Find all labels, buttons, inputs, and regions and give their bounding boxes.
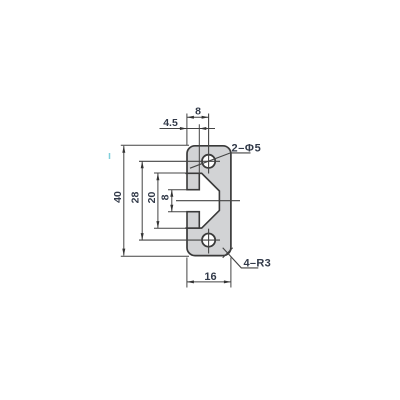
dim 8 top line (187, 116, 209, 118)
dim 4.5 arrow right (199, 127, 206, 130)
dim 16 arrow left (187, 280, 194, 283)
tab bottom (slot lip) (187, 212, 199, 228)
dim 40 extension bottom (121, 255, 189, 257)
dim 4.5 arrow left (180, 127, 187, 130)
leader 4-R3 (223, 248, 259, 268)
dim 20 arrow down (156, 221, 159, 228)
part body (16x40 rounded rect profile) (187, 146, 231, 256)
cavity (T-slot opening, white cut) (185, 173, 219, 228)
dim 40 extension top (121, 144, 189, 146)
stray cyan mark (109, 153, 111, 159)
dim 20 line (157, 173, 159, 228)
tab top (slot lip) (187, 173, 199, 189)
dim 20 extension bottom (154, 227, 187, 229)
svg-text:4–R3: 4–R3 (244, 257, 272, 269)
hole bottom (phi5) (202, 234, 215, 247)
svg-text:28: 28 (130, 192, 142, 204)
dim 8 left extension bottom (168, 211, 187, 213)
centerline top hole vertical (also ext for top 8) (208, 114, 210, 174)
dim 4.5 line (160, 128, 216, 130)
dim 16 extension right (230, 258, 232, 288)
dim 40 line (123, 146, 125, 256)
centerline horizontal (176, 200, 240, 202)
svg-text:40: 40 (112, 191, 124, 203)
svg-text:8: 8 (195, 105, 201, 117)
dim 20 arrow up (156, 173, 159, 180)
leader 4-R3 cross tick (223, 248, 233, 258)
dim 28 arrow down (141, 233, 144, 240)
dim 8 left line (171, 190, 173, 212)
dim 8 top arrow right (202, 116, 209, 119)
centerline bottom hole vertical (208, 229, 210, 254)
centerline bottom hole horizontal (also ext for 28) (139, 239, 220, 241)
dim 28 line (141, 161, 143, 240)
dim 8 left arrow down (170, 205, 173, 212)
dim 28 arrow up (141, 161, 144, 168)
dim 40 arrow down (122, 249, 125, 256)
dim 20 extension top (154, 172, 187, 174)
centerline top hole horizontal (also ext for 28) (139, 160, 220, 162)
dim 8 top arrow left (187, 116, 194, 119)
dim 8 left extension top (168, 189, 187, 191)
svg-text:16: 16 (204, 271, 216, 283)
leader 2-phi5 (190, 153, 251, 168)
svg-text:2–Φ5: 2–Φ5 (232, 143, 262, 155)
hole top (phi5) (202, 155, 215, 168)
dim 8 left arrow up (170, 190, 173, 197)
dim 16 line (187, 281, 231, 283)
dim 8 top extension left (186, 114, 188, 146)
dim 40 arrow up (122, 146, 125, 153)
svg-text:4.5: 4.5 (163, 117, 178, 129)
svg-text:20: 20 (146, 192, 158, 204)
dim 4.5 extension right (198, 124, 200, 174)
dim 16 arrow right (224, 280, 231, 283)
svg-text:8: 8 (159, 194, 171, 200)
dim 16 extension left (186, 258, 188, 288)
